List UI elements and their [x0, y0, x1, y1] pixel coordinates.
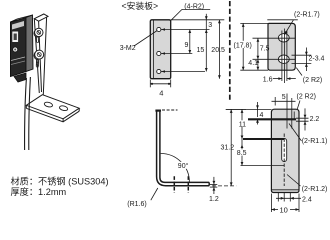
hole left on bottom plate: [44, 101, 53, 107]
hole centerlines horizontal: [253, 38, 296, 59]
label 3-M2: [120, 45, 136, 52]
inner bottom edge line: [271, 189, 299, 191]
thick reference line: [248, 118, 309, 121]
label (2-R1.7): [294, 11, 320, 18]
dimension 1.6: [273, 77, 296, 80]
svg-text:1.6: 1.6: [263, 77, 273, 84]
hole A: [278, 34, 289, 42]
vertical lines top area: [275, 94, 294, 129]
svg-text:20.5: 20.5: [211, 47, 225, 54]
vertical lines through holes: [282, 29, 287, 84]
slot: [282, 134, 287, 187]
perspective view: sensor on L-bracket: [11, 14, 80, 150]
cable: [25, 77, 31, 150]
plate body: [271, 109, 299, 192]
plate (front strip): [150, 20, 170, 79]
svg-text:9: 9: [185, 42, 189, 49]
svg-text:4.1: 4.1: [248, 60, 258, 67]
svg-text:5: 5: [282, 94, 286, 101]
hole right on bottom plate: [59, 105, 68, 111]
screw lower: [34, 50, 44, 67]
sensor body: [11, 15, 34, 82]
label (R1.6): [127, 201, 146, 208]
90 label: [177, 162, 190, 170]
extension top for 31.2: [162, 108, 246, 111]
svg-text:(R1.6): (R1.6): [127, 201, 146, 208]
leader (2-R1.7): [267, 20, 298, 35]
svg-text:7.5: 7.5: [260, 45, 270, 52]
svg-text:2.4: 2.4: [302, 196, 312, 203]
svg-text:材质：不锈钢 (SUS304): 材质：不锈钢 (SUS304): [11, 176, 109, 187]
leader (2-R1.1): [289, 124, 302, 142]
svg-text:2-3.4: 2-3.4: [309, 55, 325, 62]
svg-text:2.2: 2.2: [310, 116, 320, 123]
extension bottom for 31.2: [212, 185, 236, 187]
dimension 9: [188, 30, 191, 54]
svg-text:<安装板>: <安装板>: [122, 0, 159, 11]
svg-text:(2-R1.7): (2-R1.7): [294, 11, 320, 18]
material note text: [11, 176, 109, 198]
label (2-R1.2): [302, 186, 328, 193]
dimension 10: [271, 194, 299, 213]
svg-text:10: 10: [280, 206, 288, 215]
svg-text:4: 4: [260, 112, 264, 119]
dimension 3 and 15: [205, 14, 208, 72]
leader (2 R2) top: [297, 101, 300, 110]
leader (R1.6): [151, 188, 158, 200]
hole B: [278, 55, 289, 63]
leader (2-R2) lower: [296, 68, 302, 76]
extension lines right: [161, 20, 224, 73]
bottom ticks for 2.4: [276, 193, 301, 202]
hole 1: [157, 27, 161, 31]
bracket bottom plate: [26, 95, 79, 122]
bracket vertical strip: [34, 14, 48, 95]
svg-text:3-M2: 3-M2: [120, 45, 136, 52]
svg-text:8.5: 8.5: [237, 150, 247, 157]
title 安装板: [122, 0, 159, 11]
leader (2-R1.2): [287, 175, 301, 187]
L profile outline: [155, 110, 209, 185]
leader 3-M2: [134, 31, 157, 47]
plate body: [268, 23, 295, 70]
label (2 R2) top: [297, 94, 316, 101]
thickness 1.2 callout: [210, 177, 218, 194]
svg-text:90°: 90°: [178, 162, 189, 170]
svg-text:1.2: 1.2: [209, 196, 219, 203]
left extension lines: [241, 109, 285, 165]
dimension 7.5 / 4.1: [257, 38, 260, 70]
dimension 31.2: [230, 109, 233, 185]
svg-text:(2-R1.2): (2-R1.2): [302, 186, 328, 193]
dimension 2.2: [304, 108, 307, 130]
screw upper: [34, 28, 43, 42]
svg-text:(2-R1.1): (2-R1.1): [302, 138, 328, 145]
dimension 2-3.4: [305, 48, 308, 72]
hole 3: [157, 69, 161, 73]
hole 2: [157, 51, 161, 55]
centerline ticks on horizontal leg: [174, 176, 188, 192]
svg-text:4: 4: [159, 89, 163, 98]
svg-text:31.2: 31.2: [221, 144, 235, 151]
svg-text:厚度：1.2mm: 厚度：1.2mm: [11, 186, 67, 197]
dimension 4 bottom: [150, 80, 170, 88]
dimension 4 left: [256, 102, 259, 125]
dimension 11: [241, 109, 244, 139]
label (2-R2) lower: [303, 77, 322, 84]
svg-text:(17.8): (17.8): [234, 42, 252, 49]
90 degree arc: [161, 153, 190, 182]
svg-text:(2 R2): (2 R2): [303, 77, 322, 84]
center dash-dot separation line: [229, 1, 231, 102]
label (2-R1.1): [302, 138, 328, 145]
svg-text:15: 15: [197, 47, 205, 54]
dimension (17.8): [240, 23, 268, 70]
dimension 8.5: [241, 139, 244, 166]
label (4-R2): [184, 3, 204, 10]
svg-text:(2 R2): (2 R2): [297, 94, 316, 101]
svg-text:11: 11: [239, 121, 246, 128]
svg-text:3: 3: [208, 22, 212, 29]
dimension 20.5: [218, 20, 221, 79]
tangent lines for 2-3.4: [292, 55, 312, 63]
dimension 5 top: [272, 100, 296, 102]
leader (4-R2): [171, 9, 210, 20]
